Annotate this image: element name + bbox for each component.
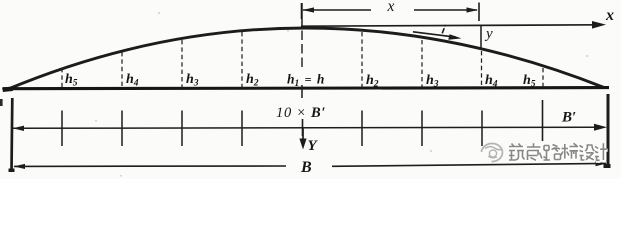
left vertical bottom blob <box>9 169 15 173</box>
glyph long <box>527 143 542 160</box>
watermark logo <box>482 144 503 162</box>
svg-text:x: x <box>605 7 614 24</box>
dimension line B left segment <box>14 165 286 167</box>
x axis <box>301 25 597 26</box>
tick 1 on 10xB' line <box>61 111 63 147</box>
dimension line 10xB' left arrowhead <box>13 126 25 131</box>
svg-text:h5: h5 <box>523 73 536 90</box>
top dimension line x (right segment with right arrow) <box>414 7 478 12</box>
tick 7 on 10xB' line <box>481 111 483 147</box>
dimension line B right arrowhead <box>596 161 607 166</box>
tick 4 on 10xB' line <box>241 111 243 147</box>
ordinate h2 left dashed <box>241 32 243 88</box>
center tick on 10xB' line <box>302 119 304 136</box>
glyph she <box>580 146 595 161</box>
tick 8 on 10xB' line <box>542 100 544 141</box>
tick 2 on 10xB' line <box>121 111 123 147</box>
slope arrow i <box>413 32 462 40</box>
dimension line 10xB' <box>12 127 596 128</box>
svg-text:B′: B′ <box>561 110 576 126</box>
svg-text:10 × B′: 10 × B′ <box>276 105 326 121</box>
tick 6 on 10xB' line <box>421 111 423 147</box>
glyph she <box>580 145 595 160</box>
left end ink blob <box>2 87 13 93</box>
glyph ji <box>595 143 607 160</box>
ordinate h5 left dashed <box>61 68 63 88</box>
baseline <box>3 88 609 89</box>
svg-text:h4: h4 <box>126 72 139 89</box>
right vertical bottom blob <box>604 164 611 168</box>
dimension line B left arrowhead <box>14 164 26 169</box>
glyph long <box>528 144 543 161</box>
glyph zhu <box>509 144 525 161</box>
ordinate h3 right dashed <box>421 40 423 88</box>
glyph qiao <box>562 144 579 159</box>
ordinate h4 left dashed <box>121 52 123 88</box>
center ordinate line upper <box>301 3 303 27</box>
glyph qiao <box>561 143 578 158</box>
svg-text:x: x <box>387 0 395 15</box>
center ordinate line mid <box>301 31 303 71</box>
svg-text:h5: h5 <box>65 72 78 89</box>
Y axis arrowhead <box>299 139 306 150</box>
camber curve <box>7 28 604 90</box>
glyph ji <box>596 144 608 161</box>
svg-text:Y: Y <box>308 138 319 154</box>
ordinate h5 right dashed <box>542 68 544 88</box>
top dimension line x (left segment with left arrow) <box>303 7 372 12</box>
svg-text:h3: h3 <box>186 72 199 89</box>
svg-text:h2: h2 <box>246 72 259 89</box>
svg-text:h1 = h: h1 = h <box>287 72 324 90</box>
ordinate y solid segment from axis to curve <box>480 26 482 50</box>
top dimension left tick at center line <box>301 3 303 19</box>
dimension line 10xB' right arrowhead <box>594 124 607 131</box>
faint scan speckles <box>95 12 588 177</box>
dimension line B right segment <box>332 163 606 166</box>
right boundary vertical <box>607 94 610 168</box>
ordinate h3 left dashed <box>181 40 183 88</box>
svg-text:h2: h2 <box>366 73 379 90</box>
top dimension right tick <box>478 3 480 22</box>
left edge mark <box>0 99 3 106</box>
center ordinate line through baseline <box>301 85 303 98</box>
tick 3 on 10xB' line <box>181 111 183 147</box>
left boundary vertical <box>10 98 14 172</box>
x axis arrowhead <box>592 21 606 29</box>
glyph zhu <box>510 145 526 162</box>
svg-text:y: y <box>484 26 493 42</box>
ordinate h4 right dashed <box>481 51 483 88</box>
watermark text zhulong luqiao sheji <box>510 144 608 161</box>
label i <box>442 25 446 34</box>
glyph lu <box>544 145 561 161</box>
tick 5 on 10xB' line <box>361 111 363 147</box>
Y axis shaft <box>302 128 304 143</box>
svg-text:h4: h4 <box>485 73 498 90</box>
glyph lu <box>544 146 561 162</box>
ordinate h2 right dashed <box>361 32 363 88</box>
svg-text:B: B <box>300 159 312 176</box>
svg-text:h3: h3 <box>426 73 439 90</box>
